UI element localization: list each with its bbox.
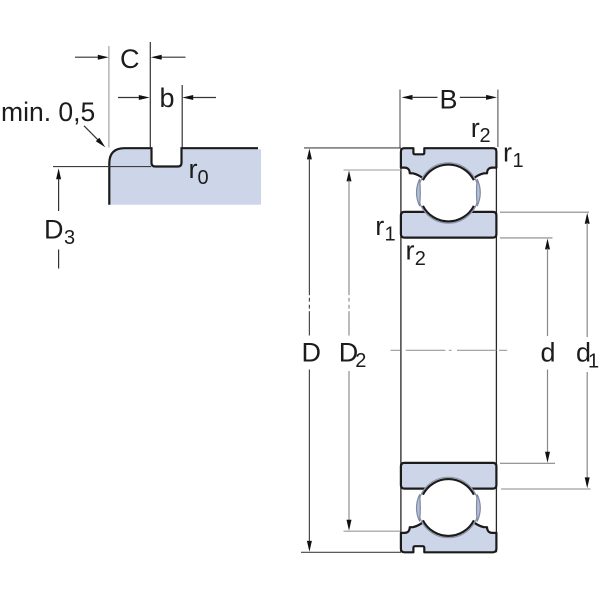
snap ring groove detail: ring section fill [110, 149, 261, 205]
D reference lines [304, 147, 401, 149]
groove bottom reference line (D3 level) [53, 166, 151, 168]
svg-text:d: d [541, 338, 556, 368]
svg-text:min. 0,5: min. 0,5 [1, 97, 95, 127]
ball upper [420, 164, 477, 221]
svg-text:1: 1 [588, 351, 599, 373]
svg-text:C: C [120, 44, 140, 74]
svg-text:1: 1 [513, 150, 524, 172]
d1 reference lines [500, 211, 589, 213]
svg-text:1: 1 [385, 224, 396, 246]
svg-text:r: r [471, 113, 480, 143]
svg-text:B: B [440, 85, 458, 115]
ring section outline [109, 148, 258, 205]
inner ring upper [401, 212, 497, 238]
bearing side face lines [400, 148, 402, 552]
svg-text:r: r [189, 154, 198, 184]
D2 reference lines [344, 169, 401, 171]
d reference lines [500, 237, 553, 239]
D3 line continuation [58, 250, 60, 269]
dimension C: arrows [75, 56, 98, 58]
dimension b: extension line [181, 85, 183, 148]
outer ring upper [401, 148, 497, 179]
cage pocket left [417, 179, 421, 206]
svg-text:b: b [160, 83, 175, 113]
svg-text:2: 2 [415, 248, 426, 270]
lower bearing half (mirror) [401, 463, 497, 552]
svg-text:r: r [375, 211, 384, 241]
cage pocket right [476, 179, 480, 206]
d1 dimension line [585, 213, 590, 224]
svg-text:D: D [302, 338, 322, 368]
raceway circle (groove) [418, 163, 478, 223]
svg-text:2: 2 [480, 125, 491, 147]
svg-text:2: 2 [355, 350, 366, 372]
upper bearing half [401, 148, 497, 237]
B dimension extension lines [399, 90, 401, 148]
svg-text:0: 0 [198, 167, 209, 189]
D2 dimension line [347, 171, 352, 182]
dimension C: extension lines [108, 46, 110, 148]
center line (axis) [391, 349, 508, 351]
D dimension line [307, 149, 312, 160]
svg-text:r: r [503, 138, 512, 168]
B dimension line + arrows [402, 95, 413, 100]
leader arrow min 0,5 [84, 126, 99, 141]
d dimension line [545, 239, 550, 250]
dimension D3: arrow [56, 168, 61, 179]
svg-text:D: D [44, 215, 64, 245]
svg-text:3: 3 [64, 227, 75, 249]
svg-text:r: r [406, 236, 415, 266]
dimension b: arrows [118, 97, 139, 99]
